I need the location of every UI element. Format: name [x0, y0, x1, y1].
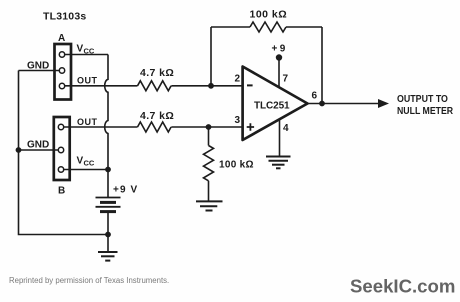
svg-text:4.7 kΩ: 4.7 kΩ	[140, 67, 174, 79]
svg-text:+9: +9	[272, 44, 288, 55]
minus sign (inverting input)	[247, 84, 253, 86]
svg-text:B: B	[58, 186, 65, 197]
svg-text:TL3103s: TL3103s	[43, 11, 86, 23]
svg-text:6: 6	[312, 91, 318, 102]
svg-text:7: 7	[283, 74, 289, 85]
wire left ground rail	[19, 71, 109, 235]
wire Vcc A to +9V rail	[65, 54, 108, 56]
wire +9V rail vertical with hops over OUT wires	[105, 55, 108, 198]
wire OUT A to inverting input	[65, 85, 243, 87]
plus sign (non-inverting input)	[247, 123, 254, 130]
resistor R3 100 k (feedback)	[250, 22, 286, 32]
output arrowhead	[378, 99, 389, 108]
svg-text:OUT: OUT	[77, 76, 98, 86]
svg-text:V: V	[77, 44, 84, 55]
resistor R2 4.7 k (bottom)	[138, 122, 172, 132]
ground (battery)	[98, 252, 118, 261]
svg-text:4.7 kΩ: 4.7 kΩ	[140, 110, 174, 122]
IC block A (TL3103 A)	[55, 44, 72, 100]
svg-text:CC: CC	[84, 159, 95, 168]
wire R4 to ground	[208, 181, 210, 202]
wire OUT B to non-inverting input	[64, 126, 243, 128]
wire pin3 node to R4	[208, 127, 210, 146]
battery BT1 +9V	[96, 198, 121, 212]
wire output	[308, 103, 379, 105]
ground (R4)	[196, 201, 223, 210]
resistor R4 100 k (pulldown)	[204, 146, 214, 181]
label Vcc (A)	[77, 44, 95, 56]
label OUTPUT TO NULL METER	[397, 94, 453, 117]
svg-text:2: 2	[235, 74, 241, 85]
wire GND A to left rail	[19, 70, 60, 72]
wire feedback from pin2 node up	[210, 27, 212, 86]
wire feedback top run	[211, 26, 322, 28]
label Vcc (B)	[77, 156, 95, 168]
node output junction	[319, 101, 325, 107]
node Vcc-B / battery junction	[105, 167, 111, 173]
op-amp U1 TLC251	[243, 67, 308, 141]
svg-text:3: 3	[235, 115, 241, 126]
node junction pin2	[208, 83, 214, 89]
svg-text:NULL METER: NULL METER	[397, 104, 453, 116]
svg-text:A: A	[58, 33, 65, 44]
pin 7 wire	[278, 58, 280, 87]
resistor R1 4.7 k (top)	[138, 81, 172, 91]
IC block B (TL3103 B)	[54, 117, 70, 180]
wire Vcc B to battery	[64, 169, 108, 171]
svg-text:V: V	[77, 156, 84, 167]
svg-text:SeekIC.com: SeekIC.com	[350, 275, 455, 296]
node GND junction (A/B ground rail)	[16, 147, 22, 153]
node bottom rail junction	[105, 232, 111, 238]
svg-text:TLC251: TLC251	[254, 101, 290, 112]
svg-text:+9 V: +9 V	[113, 185, 138, 196]
svg-text:100 kΩ: 100 kΩ	[250, 9, 288, 21]
ground (pin 4)	[266, 157, 291, 169]
svg-text:4: 4	[283, 123, 289, 134]
pin 4 wire	[279, 119, 281, 157]
svg-text:Reprinted by permission of Tex: Reprinted by permission of Texas Instrum…	[9, 276, 169, 285]
svg-text:GND: GND	[27, 140, 49, 151]
svg-text:100 kΩ: 100 kΩ	[219, 160, 254, 171]
node +9 supply terminal	[276, 54, 282, 60]
wire feedback right vertical to output	[321, 27, 323, 104]
node junction pin3	[206, 124, 212, 130]
svg-text:OUT: OUT	[77, 117, 98, 127]
wire GND B to left rail	[19, 149, 59, 151]
wire battery negative to ground	[107, 213, 109, 252]
